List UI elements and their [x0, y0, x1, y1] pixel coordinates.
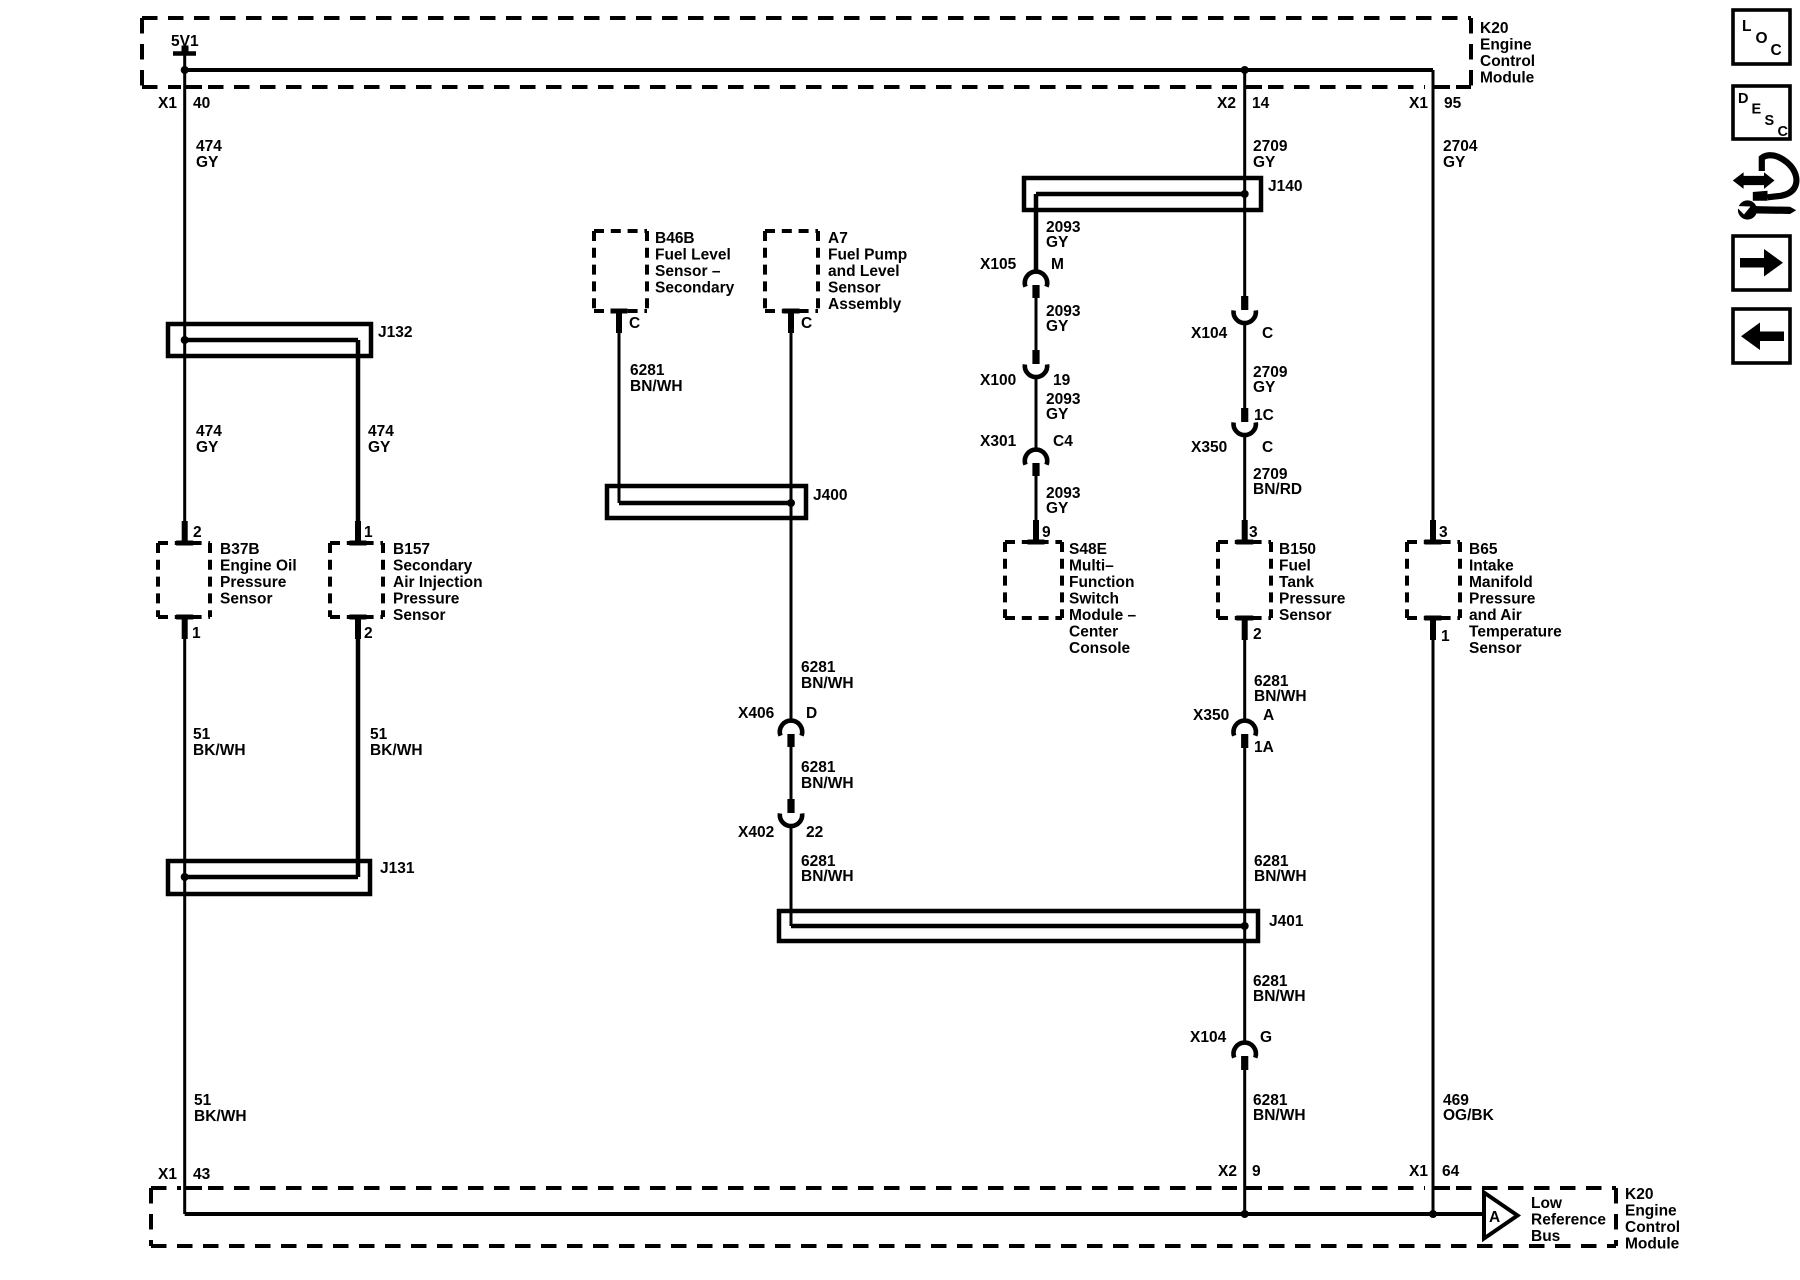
label X350 pin C	[1191, 439, 1273, 456]
terminal B157 pin 2	[350, 615, 367, 640]
module S48E name text	[1069, 541, 1137, 657]
svg-text:3: 3	[1439, 524, 1448, 541]
splice pack J131	[168, 861, 370, 894]
wire 2709 GY X104 to X350	[1243, 322, 1246, 408]
pin tick X1-43	[185, 1186, 202, 1190]
svg-text:9: 9	[1252, 1163, 1261, 1180]
inline connector X105 (male stub)	[1032, 285, 1039, 298]
sensor B65 name text	[1469, 541, 1562, 657]
pin label 1A (X350-A bottom)	[1254, 739, 1274, 756]
svg-text:J131: J131	[380, 860, 415, 877]
svg-text:B157: B157	[393, 541, 430, 558]
svg-text:Engine Oil: Engine Oil	[220, 558, 297, 575]
svg-text:O: O	[1756, 30, 1768, 47]
wire label 2093 GY (between X105 and X100)	[1046, 303, 1081, 335]
svg-text:3: 3	[1249, 524, 1258, 541]
label X301 pin C4	[980, 433, 1073, 450]
svg-text:22: 22	[806, 824, 823, 841]
svg-text:X350: X350	[1191, 439, 1227, 456]
svg-text:S48E: S48E	[1069, 541, 1107, 558]
svg-text:J140: J140	[1268, 178, 1302, 195]
pin label 3 (B150 top)	[1249, 524, 1258, 541]
svg-text:9: 9	[1042, 524, 1051, 541]
svg-text:Bus: Bus	[1531, 1228, 1560, 1245]
junction dot bus at X2-9	[1241, 1210, 1249, 1218]
svg-text:BN/WH: BN/WH	[801, 675, 854, 692]
wire 2709 GY from K20 X2-14 down through J140 to X104	[1243, 70, 1246, 296]
wire label 474 GY (left of B37B)	[196, 423, 222, 456]
wire label 2709 GY (between X104 and X350)	[1253, 364, 1288, 396]
label J400	[813, 487, 847, 504]
svg-text:C: C	[1262, 439, 1273, 456]
wire label 6281 BN/WH (above J401)	[1254, 853, 1307, 885]
svg-text:X350: X350	[1193, 707, 1229, 724]
icon diagnostic (arrows and wrench)	[1733, 155, 1797, 219]
svg-text:Low: Low	[1531, 1195, 1563, 1212]
wire 2093 GY from J140 down to X105	[1034, 194, 1039, 272]
svg-text:1: 1	[192, 625, 201, 642]
svg-text:BN/WH: BN/WH	[630, 378, 683, 395]
svg-text:S: S	[1765, 113, 1775, 129]
svg-text:BK/WH: BK/WH	[193, 742, 246, 759]
net label A	[1489, 1209, 1500, 1226]
svg-text:X1: X1	[1409, 95, 1428, 112]
pin label 1 (B65 bottom)	[1441, 628, 1450, 645]
sensor B157 box	[330, 543, 383, 617]
pin label 2 (B157 bottom)	[364, 625, 373, 642]
junction dot bus to X2-14 drop	[1241, 66, 1249, 74]
wire 2093 GY X105 to X100	[1035, 298, 1038, 350]
label X406 pin D	[738, 705, 817, 722]
svg-text:6281: 6281	[801, 659, 836, 676]
terminal B150 pin 3	[1236, 520, 1253, 545]
icon forward arrow box	[1733, 236, 1790, 290]
svg-text:A: A	[1489, 1209, 1500, 1226]
svg-text:Fuel Pump: Fuel Pump	[828, 247, 907, 264]
wire 469 OG/BK from B65-1 down to low reference bus	[1432, 640, 1435, 1214]
sensor B150 name text	[1279, 541, 1346, 624]
splice pack J132	[168, 324, 371, 356]
label X105 pin M	[980, 256, 1064, 273]
svg-text:Module –: Module –	[1069, 607, 1137, 624]
wire label 2709 GY (upper)	[1253, 138, 1288, 171]
svg-text:BN/WH: BN/WH	[1253, 988, 1306, 1005]
svg-text:1: 1	[1441, 628, 1450, 645]
inline connector X406 (male stub)	[787, 734, 794, 747]
pin label X1 64 (K20 bottom)	[1409, 1163, 1460, 1180]
svg-text:Fuel Level: Fuel Level	[655, 247, 731, 264]
svg-text:GY: GY	[1046, 500, 1069, 517]
net symbol A (low reference bus triangle)	[1484, 1193, 1518, 1239]
svg-text:Multi–: Multi–	[1069, 558, 1114, 575]
svg-text:GY: GY	[1046, 406, 1069, 423]
power node 5V1 label	[171, 33, 199, 50]
wire label 51 BK/WH (below B37B)	[193, 726, 246, 759]
svg-text:BN/RD: BN/RD	[1253, 481, 1302, 498]
junction dot J400	[787, 499, 795, 507]
pin label 3 (B65 top)	[1439, 524, 1448, 541]
wire label 2704 GY	[1443, 138, 1478, 171]
svg-text:Secondary: Secondary	[393, 558, 473, 575]
wire 51 BK/WH from B37B-1 down to bus (passes J131)	[183, 639, 186, 1214]
inline connector X104-C (male stub)	[1241, 296, 1248, 310]
wire label 6281 BN/WH (above X2-9)	[1253, 1092, 1306, 1124]
wire J132 internal splice line	[185, 338, 358, 343]
label X104 pin G	[1190, 1029, 1272, 1046]
pin label 1 (B157 top)	[364, 524, 373, 541]
svg-text:1: 1	[364, 524, 373, 541]
svg-text:Temperature: Temperature	[1469, 624, 1562, 641]
pin tick X1-95	[1433, 85, 1450, 89]
junction dot J401	[1241, 922, 1249, 930]
wire label 51 BK/WH (below B157)	[370, 726, 423, 759]
svg-text:Sensor: Sensor	[1279, 607, 1332, 624]
svg-text:51: 51	[194, 1092, 212, 1109]
terminal B46B pin C	[611, 309, 628, 334]
pin label 2 (B37B top)	[193, 524, 202, 541]
terminal B65 pin 1	[1425, 616, 1442, 641]
splice pack J140	[1024, 178, 1261, 210]
svg-text:M: M	[1051, 256, 1064, 273]
svg-text:64: 64	[1442, 1163, 1460, 1180]
svg-text:X104: X104	[1190, 1029, 1227, 1046]
svg-text:X2: X2	[1217, 95, 1236, 112]
icon DESC box	[1733, 86, 1790, 140]
svg-text:D: D	[1738, 91, 1748, 107]
svg-text:GY: GY	[1046, 318, 1069, 335]
label X104 pin C	[1191, 325, 1273, 342]
terminal B157 pin 1	[350, 521, 367, 546]
svg-text:Air Injection: Air Injection	[393, 574, 483, 591]
pin tick X1-40	[185, 85, 202, 89]
terminal B37B pin 1	[176, 615, 193, 640]
module S48E box	[1005, 542, 1062, 618]
svg-text:Engine: Engine	[1625, 1203, 1677, 1220]
splice pack J401	[779, 911, 1258, 941]
wire label 2709 BN/RD	[1253, 466, 1302, 498]
sensor B157 name text	[393, 541, 483, 624]
svg-text:Function: Function	[1069, 574, 1134, 591]
pin tick X2-14	[1245, 85, 1262, 89]
svg-text:1C: 1C	[1254, 407, 1274, 424]
svg-text:GY: GY	[1443, 154, 1466, 171]
terminal A7 pin C	[783, 309, 800, 334]
svg-text:Intake: Intake	[1469, 558, 1514, 575]
sensor B150 box	[1218, 542, 1271, 618]
inline connector X104-C (female arc)	[1234, 310, 1256, 323]
svg-text:19: 19	[1053, 372, 1071, 389]
svg-text:C4: C4	[1053, 433, 1073, 450]
svg-text:6281: 6281	[630, 362, 665, 379]
inline connector X350-A (female arc)	[1234, 721, 1256, 736]
pin label 2 (B150 bottom)	[1253, 626, 1262, 643]
terminal B37B pin 2	[176, 521, 193, 546]
pin label C (B46B)	[629, 315, 640, 332]
svg-text:1A: 1A	[1254, 739, 1274, 756]
svg-text:GY: GY	[1253, 379, 1276, 396]
svg-text:and Level: and Level	[828, 263, 900, 280]
pin label C (A7)	[801, 315, 812, 332]
svg-text:X1: X1	[158, 95, 177, 112]
svg-text:474: 474	[196, 138, 222, 155]
wire label 469 OG/BK	[1443, 1092, 1495, 1124]
svg-text:Module: Module	[1625, 1236, 1680, 1253]
svg-text:C: C	[1262, 325, 1273, 342]
svg-text:Sensor: Sensor	[828, 280, 881, 297]
wire label 2093 GY (below J140)	[1046, 219, 1081, 251]
svg-text:BN/WH: BN/WH	[801, 868, 854, 885]
wire J400 internal splice line	[619, 501, 791, 506]
wire label 2093 GY (above S48E)	[1046, 485, 1081, 517]
pin label X1 43 (K20 bottom left)	[158, 1166, 211, 1183]
svg-text:OG/BK: OG/BK	[1443, 1107, 1495, 1124]
svg-text:Module: Module	[1480, 70, 1535, 87]
sensor B46B name text	[655, 230, 735, 297]
splice pack J400	[607, 486, 806, 518]
svg-text:Reference: Reference	[1531, 1212, 1606, 1229]
svg-text:X2: X2	[1218, 1163, 1237, 1180]
svg-text:X104: X104	[1191, 325, 1228, 342]
inline connector X350-A (male stub)	[1241, 734, 1248, 748]
svg-text:Manifold: Manifold	[1469, 574, 1533, 591]
wire label 6281 BN/WH (below B46B)	[630, 362, 683, 395]
inline connector X301 (male stub)	[1032, 463, 1039, 476]
label X100 pin 19	[980, 372, 1071, 389]
sensor B37B name text	[220, 541, 297, 608]
label X350 pin A	[1193, 707, 1274, 724]
svg-text:Console: Console	[1069, 640, 1131, 657]
wire label 2093 GY (between X100 and X301)	[1046, 391, 1081, 423]
pin label 1 (B37B bottom)	[192, 625, 201, 642]
svg-text:X1: X1	[1409, 1163, 1428, 1180]
wire label 6281 BN/WH (above J401 left)	[801, 853, 854, 885]
wire 5V reference bus (horizontal, inside K20)	[185, 68, 1433, 72]
svg-text:G: G	[1260, 1029, 1272, 1046]
module K20 Engine Control Module (bottom) dashed outline	[151, 1188, 1616, 1246]
svg-text:L: L	[1742, 18, 1751, 35]
wire J140 internal splice line	[1036, 192, 1245, 197]
wire 2709 BN/RD X350 to B150	[1243, 434, 1246, 542]
svg-text:A: A	[1263, 707, 1274, 724]
svg-text:Pressure: Pressure	[220, 574, 287, 591]
junction dot at 5V1 / 5V reference bus	[181, 66, 189, 74]
svg-text:BN/WH: BN/WH	[801, 775, 854, 792]
svg-text:B65: B65	[1469, 541, 1498, 558]
svg-text:Sensor: Sensor	[220, 591, 273, 608]
wire 51 BK/WH from B157-2 down to J131	[356, 639, 361, 877]
svg-text:X100: X100	[980, 372, 1016, 389]
terminal B65 pin 3	[1425, 520, 1442, 545]
wire label 51 BK/WH (above X1-43)	[194, 1092, 247, 1125]
icon back arrow box	[1733, 309, 1790, 363]
svg-text:43: 43	[193, 1166, 211, 1183]
svg-text:Switch: Switch	[1069, 591, 1119, 608]
wire label 6281 BN/WH (below J401)	[1253, 973, 1306, 1005]
module K20 Engine Control Module (top) dashed outline	[142, 18, 1471, 87]
power node 5V1 symbol	[173, 46, 196, 68]
wire 6281 BN/WH from B150-2 to X350-A	[1243, 640, 1246, 721]
svg-text:Secondary: Secondary	[655, 280, 735, 297]
svg-text:C: C	[629, 315, 640, 332]
sensor B65 box	[1407, 542, 1460, 618]
svg-text:C: C	[1778, 124, 1789, 140]
svg-text:and Air: and Air	[1469, 607, 1522, 624]
wire 6281 BN/WH X350-A down through J401 to X104-G	[1243, 748, 1246, 1043]
pin label 1C (X350 top)	[1254, 407, 1274, 424]
label J132	[378, 324, 412, 341]
svg-text:BN/WH: BN/WH	[1253, 1107, 1306, 1124]
svg-text:Engine: Engine	[1480, 37, 1532, 54]
junction dot J140	[1241, 190, 1249, 198]
svg-text:2709: 2709	[1253, 138, 1288, 155]
svg-text:6281: 6281	[801, 759, 836, 776]
svg-text:GY: GY	[196, 439, 219, 456]
pin label X1 40 (K20 top left)	[158, 95, 210, 112]
inline connector X402 (female arc)	[780, 813, 802, 826]
svg-text:51: 51	[370, 726, 388, 743]
wire 2093 GY X100 to X301	[1035, 376, 1038, 450]
svg-text:X402: X402	[738, 824, 774, 841]
wire J131 internal splice line	[185, 875, 358, 880]
svg-text:51: 51	[193, 726, 211, 743]
wire 474 GY from J132 down to B157	[356, 340, 361, 543]
svg-text:C: C	[1771, 42, 1782, 59]
svg-text:K20: K20	[1625, 1186, 1653, 1203]
wire 6281 BN/WH from A7-C down through J400 to X406	[790, 333, 793, 721]
svg-text:GY: GY	[368, 439, 391, 456]
label X402 pin 22	[738, 824, 823, 841]
sensor B46B box	[594, 231, 647, 311]
svg-text:BK/WH: BK/WH	[370, 742, 423, 759]
pin tick X2-9	[1245, 1186, 1262, 1190]
wire 2704 GY from K20 X1-95 down to B65	[1432, 70, 1435, 542]
svg-text:BN/WH: BN/WH	[1254, 868, 1307, 885]
svg-text:K20: K20	[1480, 20, 1508, 37]
svg-text:Tank: Tank	[1279, 574, 1314, 591]
svg-text:2: 2	[1253, 626, 1262, 643]
wire 6281 BN/WH X104-G to low reference bus	[1243, 1070, 1246, 1214]
svg-text:GY: GY	[1253, 154, 1276, 171]
svg-text:Sensor –: Sensor –	[655, 263, 721, 280]
svg-text:Control: Control	[1480, 53, 1535, 70]
label J131	[380, 860, 415, 877]
wire low reference bus (horizontal)	[185, 1212, 1484, 1216]
svg-text:Fuel: Fuel	[1279, 558, 1311, 575]
sensor B37B box	[158, 543, 210, 617]
svg-text:X301: X301	[980, 433, 1017, 450]
inline connector X104-G (female arc)	[1234, 1043, 1256, 1058]
svg-text:Pressure: Pressure	[1469, 591, 1536, 608]
svg-text:B37B: B37B	[220, 541, 260, 558]
junction dot bus at X1-64	[1429, 1210, 1437, 1218]
net name Low Reference Bus	[1531, 1195, 1606, 1245]
wire label 474 GY (upper)	[196, 138, 222, 171]
svg-text:95: 95	[1444, 95, 1462, 112]
svg-text:Sensor: Sensor	[1469, 640, 1522, 657]
icon LOC box	[1733, 10, 1790, 64]
svg-text:J401: J401	[1269, 913, 1304, 930]
svg-text:14: 14	[1252, 95, 1270, 112]
wire label 6281 BN/WH (between X406 and X402)	[801, 759, 854, 792]
wire label 6281 BN/WH (above X406)	[801, 659, 854, 692]
wire label 474 GY (left of B157)	[368, 423, 394, 456]
svg-text:2: 2	[193, 524, 202, 541]
svg-text:40: 40	[193, 95, 210, 112]
svg-text:Pressure: Pressure	[1279, 591, 1346, 608]
inline connector X105 (female arc)	[1025, 272, 1047, 287]
wire 474 GY from K20 X1-40 down to B37B (passes J132)	[183, 70, 186, 543]
wire 2093 GY X301 to S48E	[1035, 476, 1038, 542]
inline connector X104-G (male stub)	[1241, 1056, 1248, 1070]
label J140	[1268, 178, 1302, 195]
svg-text:C: C	[801, 315, 812, 332]
inline connector X100 (female arc)	[1025, 364, 1047, 377]
svg-text:B46B: B46B	[655, 230, 695, 247]
sensor A7 name text	[828, 230, 907, 313]
pin tick X1-64	[1433, 1186, 1450, 1190]
svg-text:Pressure: Pressure	[393, 591, 460, 608]
svg-text:GY: GY	[1046, 234, 1069, 251]
svg-text:474: 474	[196, 423, 222, 440]
svg-text:GY: GY	[196, 154, 219, 171]
svg-text:B150: B150	[1279, 541, 1316, 558]
wire J401 internal splice line	[791, 924, 1245, 929]
inline connector X350-C (male stub)	[1241, 408, 1248, 422]
wire 6281 BN/WH X402 to J401	[790, 825, 793, 926]
svg-text:D: D	[806, 705, 817, 722]
svg-text:Center: Center	[1069, 624, 1118, 641]
inline connector X350-C (female arc)	[1234, 422, 1256, 435]
svg-text:Assembly: Assembly	[828, 296, 902, 313]
wire 6281 BN/WH from B46B-C to J400	[618, 333, 621, 503]
module K20 (top) name text	[1480, 20, 1535, 87]
module K20 (bottom) name text	[1625, 1186, 1680, 1253]
svg-text:E: E	[1752, 102, 1762, 118]
svg-text:X105: X105	[980, 256, 1017, 273]
svg-text:BN/WH: BN/WH	[1254, 688, 1307, 705]
sensor A7 box	[765, 231, 818, 311]
svg-text:X406: X406	[738, 705, 775, 722]
pin label 9 (S48E)	[1042, 524, 1051, 541]
svg-text:2704: 2704	[1443, 138, 1478, 155]
svg-text:Sensor: Sensor	[393, 607, 446, 624]
pin label X2 14	[1217, 95, 1270, 112]
svg-text:X1: X1	[158, 1166, 177, 1183]
svg-text:J132: J132	[378, 324, 412, 341]
inline connector X402 (male stub)	[787, 799, 794, 813]
pin label X2 9 (K20 bottom)	[1218, 1163, 1261, 1180]
terminal B150 pin 2	[1236, 616, 1253, 641]
wire 6281 BN/WH X406 to X402	[790, 747, 793, 799]
wire label 6281 BN/WH (below B150)	[1254, 673, 1307, 705]
inline connector X100 (male stub)	[1032, 350, 1039, 364]
label J401	[1269, 913, 1304, 930]
svg-text:A7: A7	[828, 230, 848, 247]
inline connector X301 (female arc)	[1025, 450, 1047, 465]
svg-text:2: 2	[364, 625, 373, 642]
junction dot J131	[181, 873, 189, 881]
svg-text:BK/WH: BK/WH	[194, 1108, 247, 1125]
svg-text:J400: J400	[813, 487, 847, 504]
svg-text:474: 474	[368, 423, 394, 440]
junction dot J132	[181, 336, 189, 344]
pin label X1 95	[1409, 95, 1462, 112]
svg-text:Control: Control	[1625, 1219, 1680, 1236]
inline connector X406 (female arc)	[780, 721, 802, 736]
terminal S48E pin 9	[1028, 520, 1045, 545]
